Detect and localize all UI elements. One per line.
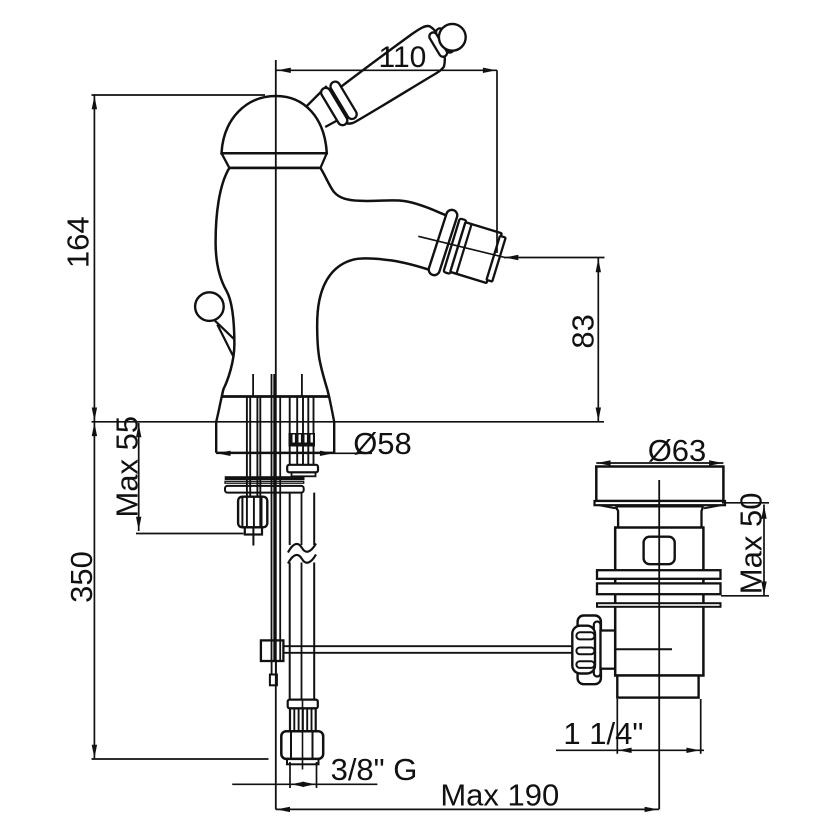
svg-text:83: 83 <box>566 314 601 348</box>
svg-text:1 1/4": 1 1/4" <box>563 716 643 751</box>
svg-text:350: 350 <box>64 551 99 603</box>
svg-text:Max 190: Max 190 <box>440 778 559 813</box>
svg-text:Ø58: Ø58 <box>353 426 412 461</box>
svg-text:164: 164 <box>61 216 96 268</box>
svg-text:3/8" G: 3/8" G <box>331 752 418 787</box>
svg-text:Max 50: Max 50 <box>734 493 769 595</box>
svg-text:Ø63: Ø63 <box>648 433 707 468</box>
svg-text:Max 55: Max 55 <box>109 416 144 518</box>
svg-text:110: 110 <box>378 41 426 74</box>
